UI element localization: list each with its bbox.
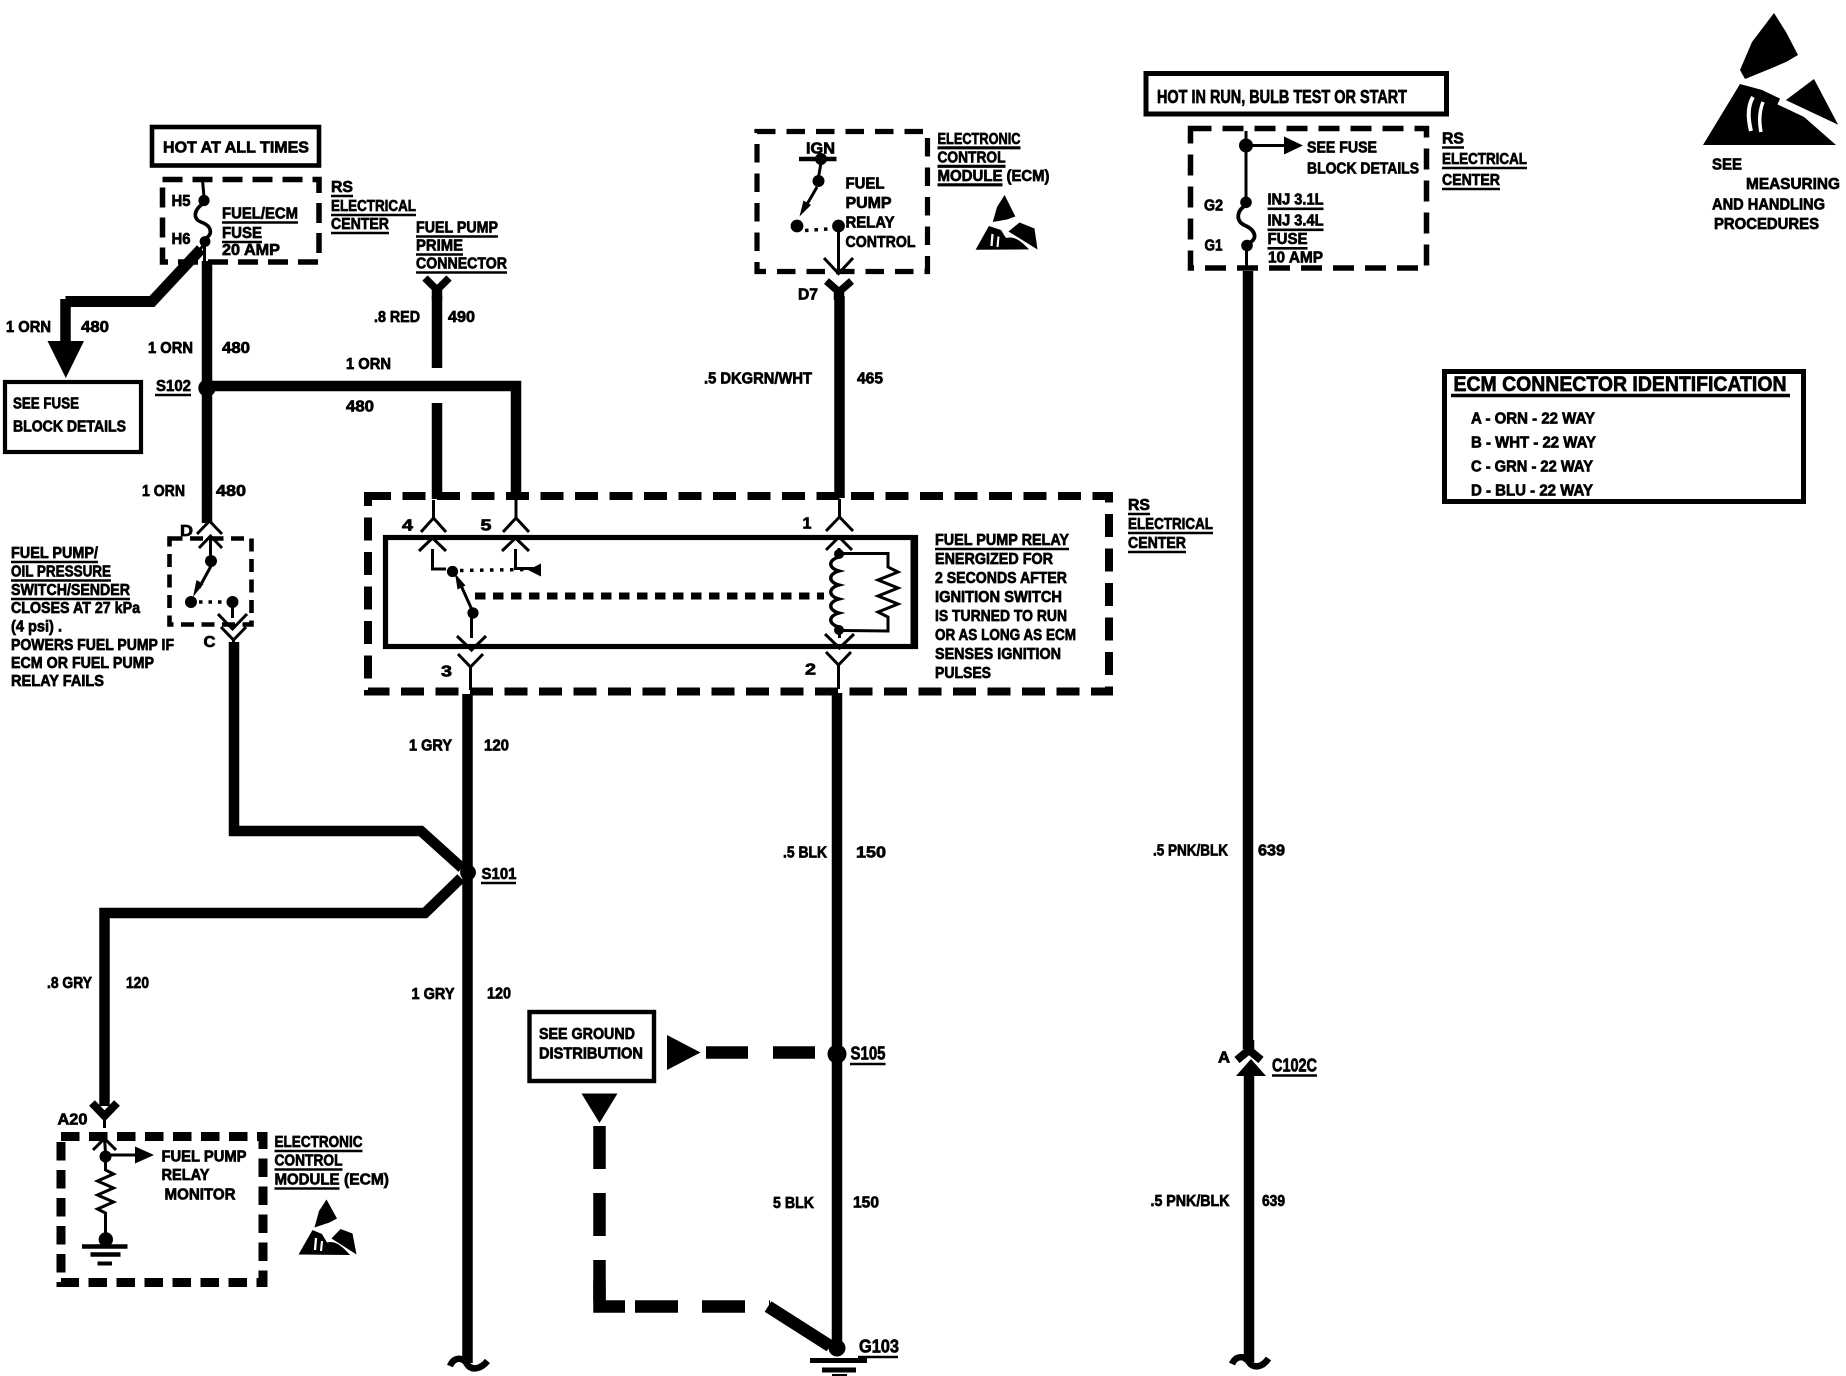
label 1 ORN 480 (above pin D) xyxy=(142,483,246,500)
arrow down to SEE FUSE BLOCK DETAILS xyxy=(48,299,85,378)
dashed box ECM (top middle) xyxy=(757,132,928,272)
wire fuse H6 down to S102 xyxy=(202,261,213,384)
svg-text:1 GRY: 1 GRY xyxy=(412,986,455,1003)
svg-text:FUSE: FUSE xyxy=(1268,231,1308,248)
box SEE FUSE BLOCK DETAILS (left) xyxy=(5,382,141,452)
svg-text:CENTER: CENTER xyxy=(1128,535,1186,552)
svg-text:RELAY FAILS: RELAY FAILS xyxy=(11,673,104,690)
label 5 BLK 150 xyxy=(773,1195,879,1213)
svg-text:10 AMP: 10 AMP xyxy=(1268,250,1323,267)
svg-text:A20: A20 xyxy=(58,1112,88,1129)
svg-text:HOT AT ALL TIMES: HOT AT ALL TIMES xyxy=(163,140,309,157)
label .5 PNK/BLK 639 (lower) xyxy=(1151,1193,1286,1210)
svg-text:G103: G103 xyxy=(859,1337,899,1357)
svg-text:IS TURNED TO RUN: IS TURNED TO RUN xyxy=(935,608,1067,625)
wire continuation hook (right wire bottom) xyxy=(1232,1357,1269,1366)
svg-text:CONTROL: CONTROL xyxy=(275,1153,343,1170)
svg-text:.5 PNK/BLK: .5 PNK/BLK xyxy=(1153,843,1228,860)
svg-text:PRIME: PRIME xyxy=(416,238,463,255)
svg-text:ELECTRONIC: ELECTRONIC xyxy=(275,1134,363,1151)
svg-text:1 ORN: 1 ORN xyxy=(142,483,185,500)
svg-text:.5 PNK/BLK: .5 PNK/BLK xyxy=(1151,1193,1230,1210)
label FUEL PUMP RELAY CONTROL xyxy=(846,176,916,252)
svg-text:SEE: SEE xyxy=(1712,157,1742,174)
svg-text:20 AMP: 20 AMP xyxy=(222,242,280,259)
svg-text:RS: RS xyxy=(331,179,353,196)
svg-text:.8 GRY: .8 GRY xyxy=(47,975,92,992)
svg-text:1: 1 xyxy=(803,516,812,533)
svg-text:G1: G1 xyxy=(1205,238,1223,255)
wire relay pin 3 down through S101 to bottom xyxy=(462,694,473,1363)
svg-text:FUEL PUMP RELAY: FUEL PUMP RELAY xyxy=(935,532,1069,549)
svg-text:OIL PRESSURE: OIL PRESSURE xyxy=(11,564,111,581)
ESD symbol (bottom left ECM) xyxy=(299,1200,357,1256)
pin C terminal chevrons xyxy=(218,614,247,645)
wire S101 down-left branch to A20 xyxy=(105,878,462,1106)
svg-text:1 GRY: 1 GRY xyxy=(409,738,452,755)
svg-text:BLOCK DETAILS: BLOCK DETAILS xyxy=(1307,161,1419,178)
svg-text:RS: RS xyxy=(1442,131,1464,148)
relay parallel resistor xyxy=(843,554,898,632)
svg-text:ENERGIZED FOR: ENERGIZED FOR xyxy=(935,551,1053,568)
label ELECTRONIC CONTROL MODULE (ECM) bottom xyxy=(275,1134,390,1189)
svg-text:1 ORN: 1 ORN xyxy=(346,356,391,373)
svg-text:FUEL: FUEL xyxy=(846,176,885,193)
pin 3 terminal xyxy=(457,618,486,690)
fuse INJ 10A symbol xyxy=(1238,197,1254,271)
ground G103 xyxy=(810,1340,867,1376)
ECM output arrow at pin D7 xyxy=(824,232,853,274)
svg-text:CENTER: CENTER xyxy=(331,216,389,233)
label .5 DKGRN/WHT 465 xyxy=(704,371,883,388)
svg-text:.5 DKGRN/WHT: .5 DKGRN/WHT xyxy=(704,371,812,388)
svg-text:BLOCK DETAILS: BLOCK DETAILS xyxy=(13,419,126,436)
ESD symbol large (top right) xyxy=(1703,13,1846,145)
pin A20 Y terminal xyxy=(92,1103,117,1128)
svg-text:639: 639 xyxy=(1262,1193,1285,1210)
wire thick diagonal from fuse to left arrow xyxy=(66,249,202,302)
node S105 xyxy=(828,1044,886,1065)
node G103 label xyxy=(858,1337,899,1358)
dashed box RS electrical center (fuel/ecm fuse) xyxy=(163,180,320,263)
label SEE MEASURING AND HANDLING PROCEDURES xyxy=(1712,157,1840,234)
svg-text:S105: S105 xyxy=(851,1044,886,1064)
svg-text:HOT IN RUN, BULB TEST OR STAR: HOT IN RUN, BULB TEST OR START xyxy=(1157,87,1407,107)
wire D7 down to relay pin 1 xyxy=(834,296,845,498)
dashed box oil pressure switch xyxy=(170,539,252,625)
wire prime connector down to relay pin 4 (break at crossing) xyxy=(432,296,443,499)
wire pin C down and over to S101 xyxy=(234,642,462,868)
box SEE GROUND DISTRIBUTION xyxy=(530,1012,655,1081)
svg-text:2: 2 xyxy=(805,662,816,679)
label INJ 3.1L / INJ 3.4L / FUSE / 10 AMP xyxy=(1268,192,1324,267)
svg-text:150: 150 xyxy=(853,1195,879,1212)
label .5 BLK 150 xyxy=(783,845,886,862)
svg-text:639: 639 xyxy=(1258,843,1285,860)
label FUEL/ECM FUSE 20 AMP xyxy=(222,206,298,260)
pin 1 terminal xyxy=(826,499,853,550)
box ECM CONNECTOR IDENTIFICATION xyxy=(1445,372,1804,502)
relay switch contacts xyxy=(433,549,542,577)
node S102 xyxy=(155,378,216,397)
wire relay pin 2 down through S105 to G103 xyxy=(832,693,843,1348)
ECM internal switch (fuel pump relay control driver) xyxy=(791,153,845,232)
dashed box RS electrical center (right fuse) xyxy=(1191,129,1427,269)
svg-text:OR AS LONG AS ECM: OR AS LONG AS ECM xyxy=(935,627,1076,644)
svg-text:H6: H6 xyxy=(172,231,191,248)
svg-text:RELAY: RELAY xyxy=(846,215,895,232)
svg-text:480: 480 xyxy=(346,399,374,416)
label FUEL PUMP RELAY MONITOR xyxy=(162,1149,247,1204)
label ELECTRONIC CONTROL MODULE (ECM) top xyxy=(938,131,1050,185)
svg-text:150: 150 xyxy=(856,845,886,862)
svg-text:SEE FUSE: SEE FUSE xyxy=(1307,140,1377,157)
svg-text:C102C: C102C xyxy=(1272,1056,1317,1076)
relay switch blade xyxy=(455,574,479,619)
ground (ECM internal) xyxy=(82,1232,128,1263)
svg-text:ECM OR FUEL PUMP: ECM OR FUEL PUMP xyxy=(11,655,154,672)
svg-text:480: 480 xyxy=(216,483,246,500)
pin 5 terminal xyxy=(502,500,529,551)
label 1 GRY 120 (upper) xyxy=(409,738,509,755)
svg-text:.8 RED: .8 RED xyxy=(374,309,420,326)
svg-text:FUEL PUMP: FUEL PUMP xyxy=(162,1149,247,1166)
svg-text:ELECTRONIC: ELECTRONIC xyxy=(938,131,1021,148)
ECM input arrow at A20 xyxy=(93,1139,116,1153)
svg-text:D: D xyxy=(180,523,193,540)
fuse FUEL/ECM 20A symbol xyxy=(188,180,210,263)
svg-text:ELECTRICAL: ELECTRICAL xyxy=(1442,151,1527,168)
wire continuation hook (1 GRY wire bottom) xyxy=(450,1359,488,1369)
svg-text:AND HANDLING: AND HANDLING xyxy=(1712,197,1825,214)
pin D7 Y terminal xyxy=(827,281,852,300)
svg-text:FUEL/ECM: FUEL/ECM xyxy=(222,206,298,223)
svg-text:CLOSES AT 27 kPa: CLOSES AT 27 kPa xyxy=(11,600,140,617)
svg-text:4: 4 xyxy=(402,518,413,535)
svg-text:.5 BLK: .5 BLK xyxy=(783,845,827,862)
label RS ELECTRICAL CENTER (top left) xyxy=(331,179,416,233)
fuel pump relay monitor node and arrow xyxy=(100,1147,155,1164)
svg-text:PULSES: PULSES xyxy=(935,665,991,682)
relay coil xyxy=(831,548,844,635)
label .8 RED 490 xyxy=(374,309,475,326)
svg-text:D7: D7 xyxy=(798,287,818,304)
svg-text:MONITOR: MONITOR xyxy=(165,1187,236,1204)
svg-text:2 SECONDS AFTER: 2 SECONDS AFTER xyxy=(935,570,1067,587)
box HOT AT ALL TIMES xyxy=(152,127,319,166)
svg-text:120: 120 xyxy=(484,738,509,755)
relay inner solid box xyxy=(386,538,916,647)
wire INJ fuse down to C102C xyxy=(1243,271,1254,1049)
pin D terminal chevrons xyxy=(197,521,222,555)
svg-text:H5: H5 xyxy=(172,193,191,210)
svg-text:MODULE: MODULE xyxy=(938,168,1003,185)
svg-text:RELAY: RELAY xyxy=(162,1167,210,1184)
svg-text:FUEL PUMP/: FUEL PUMP/ xyxy=(11,545,98,562)
svg-text:PROCEDURES: PROCEDURES xyxy=(1714,216,1819,233)
wire S102 down to switch pin D xyxy=(202,388,213,523)
svg-text:CONTROL: CONTROL xyxy=(938,150,1006,167)
svg-text:C: C xyxy=(204,634,216,651)
switch/sender contacts and blade xyxy=(185,555,239,618)
svg-text:POWERS FUEL PUMP IF: POWERS FUEL PUMP IF xyxy=(11,637,174,654)
node S101 xyxy=(460,865,516,883)
svg-text:(ECM): (ECM) xyxy=(344,1172,389,1189)
dashed box RS electrical center (relay) xyxy=(368,496,1109,692)
svg-text:D - BLU - 22 WAY: D - BLU - 22 WAY xyxy=(1471,483,1593,500)
dashed wire to S105 xyxy=(706,1046,824,1059)
svg-text:SEE FUSE: SEE FUSE xyxy=(13,396,79,413)
arrow right (ground distribution) xyxy=(667,1035,701,1070)
svg-text:CONNECTOR: CONNECTOR xyxy=(416,256,507,273)
svg-text:1 ORN: 1 ORN xyxy=(148,340,193,357)
fuel pump prime connector Y terminal xyxy=(425,278,449,300)
label FUEL PUMP PRIME CONNECTOR xyxy=(416,220,507,273)
resistor (monitor pull-up) xyxy=(98,1162,114,1233)
svg-text:SWITCH/SENDER: SWITCH/SENDER xyxy=(11,582,130,599)
label .5 PNK/BLK 639 (upper) xyxy=(1153,843,1285,860)
svg-text:RS: RS xyxy=(1128,497,1150,514)
svg-text:480: 480 xyxy=(81,319,109,336)
svg-text:S101: S101 xyxy=(482,866,517,883)
svg-text:INJ 3.4L: INJ 3.4L xyxy=(1268,213,1324,230)
label RS ELECTRICAL CENTER (right) xyxy=(1442,131,1527,190)
dashed wire down and right to G103 xyxy=(600,1126,831,1346)
label 1 GRY 120 (lower) xyxy=(412,986,512,1004)
svg-text:A: A xyxy=(1218,1050,1230,1067)
svg-text:FUEL PUMP: FUEL PUMP xyxy=(416,220,498,237)
node and arrow SEE FUSE BLOCK DETAILS (right) xyxy=(1239,131,1419,198)
svg-text:INJ 3.1L: INJ 3.1L xyxy=(1268,192,1324,209)
svg-text:3: 3 xyxy=(441,664,452,681)
svg-text:ELECTRICAL: ELECTRICAL xyxy=(1128,516,1213,533)
label .8 GRY 120 xyxy=(47,975,149,992)
svg-text:FUSE: FUSE xyxy=(222,225,262,242)
svg-text:120: 120 xyxy=(487,986,511,1003)
svg-text:ECM CONNECTOR IDENTIFICATION: ECM CONNECTOR IDENTIFICATION xyxy=(1454,373,1787,396)
svg-text:465: 465 xyxy=(857,371,883,388)
label 1 ORN 480 (fuse wire) xyxy=(148,340,250,357)
svg-text:SENSES IGNITION: SENSES IGNITION xyxy=(935,646,1061,663)
label 1 ORN 480 (arrow wire) xyxy=(6,319,109,336)
svg-text:A - ORN - 22 WAY: A - ORN - 22 WAY xyxy=(1471,411,1595,428)
svg-text:MEASURING: MEASURING xyxy=(1746,176,1840,193)
svg-text:1 ORN: 1 ORN xyxy=(6,319,51,336)
label FUEL PUMP RELAY note xyxy=(935,532,1076,682)
connector C102C xyxy=(1218,1040,1317,1362)
svg-text:(ECM): (ECM) xyxy=(1007,168,1050,185)
svg-text:IGNITION SWITCH: IGNITION SWITCH xyxy=(935,589,1062,606)
svg-text:C - GRN - 22 WAY: C - GRN - 22 WAY xyxy=(1471,459,1593,476)
dashed box ECM (bottom left) xyxy=(61,1137,263,1283)
svg-text:S102: S102 xyxy=(156,378,191,395)
label fuel pump/oil pressure switch text block xyxy=(11,545,174,690)
ESD symbol (top middle ECM) xyxy=(976,195,1038,250)
svg-text:MODULE: MODULE xyxy=(275,1172,340,1189)
svg-text:CONTROL: CONTROL xyxy=(846,234,916,251)
svg-text:120: 120 xyxy=(126,975,149,992)
label RS ELECTRICAL CENTER (relay) xyxy=(1128,497,1213,552)
svg-text:DISTRIBUTION: DISTRIBUTION xyxy=(539,1046,643,1063)
svg-text:G2: G2 xyxy=(1204,198,1223,215)
relay mechanical dashed link xyxy=(475,593,824,600)
pin 4 terminal xyxy=(419,500,446,551)
svg-text:SEE GROUND: SEE GROUND xyxy=(539,1026,635,1043)
svg-text:(4 psi) .: (4 psi) . xyxy=(11,619,62,636)
svg-text:CENTER: CENTER xyxy=(1442,172,1500,189)
svg-text:B - WHT - 22 WAY: B - WHT - 22 WAY xyxy=(1471,435,1596,452)
svg-text:5: 5 xyxy=(481,518,492,535)
svg-text:490: 490 xyxy=(448,309,475,326)
svg-text:480: 480 xyxy=(222,340,250,357)
pin 2 terminal xyxy=(825,632,854,689)
arrow down (ground distribution) xyxy=(582,1094,618,1124)
svg-text:ELECTRICAL: ELECTRICAL xyxy=(331,198,416,215)
wire S102 horizontal to relay pin 5 xyxy=(211,386,516,499)
svg-text:PUMP: PUMP xyxy=(846,195,892,212)
box HOT IN RUN, BULB TEST OR START xyxy=(1146,74,1447,115)
svg-text:5 BLK: 5 BLK xyxy=(773,1195,814,1212)
